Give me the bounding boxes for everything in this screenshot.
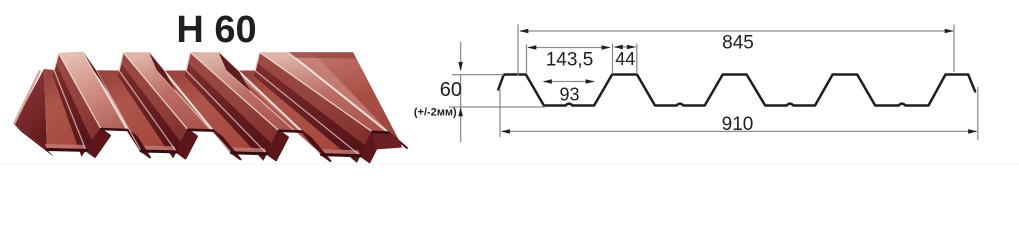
valley 2 top surface [96, 70, 177, 152]
back cut shading: dark wedges on right slants [83, 52, 107, 91]
rib 3 left web front face [267, 131, 288, 161]
valley 1 top surface [44, 69, 86, 150]
rib 1 left web dark core [53, 63, 93, 157]
svg-text:910: 910 [722, 114, 754, 135]
valley 1 front reflection strip [45, 144, 86, 150]
outer web front lower edge foot [14, 124, 54, 157]
rib 2 right web (lit side) [149, 52, 232, 153]
rib 3 crest top [190, 52, 302, 131]
front cut edges [47, 148, 86, 152]
valley 4 top surface [227, 71, 361, 156]
valley 2 front reflection strip [139, 146, 177, 152]
back edge white lines on left slants [54, 53, 59, 70]
profile cross-section outline [498, 75, 975, 106]
rib 2 left web dark core [118, 63, 182, 159]
dimension 845 [520, 30, 953, 32]
rib 4 crest top [259, 52, 388, 132]
rib 3 right web sheen [219, 52, 312, 143]
valley 3 front reflection strip [229, 147, 267, 154]
rib 2 right web sheen [149, 52, 222, 142]
svg-text:143,5: 143,5 [546, 49, 594, 70]
rib 4 left web (shadow side) [255, 52, 373, 156]
end band upper light strip [288, 52, 393, 136]
svg-text:44: 44 [615, 49, 635, 69]
rib 3 left web (shadow side) [186, 52, 279, 154]
rib 2 left web front face [177, 130, 198, 159]
svg-text:93: 93 [559, 85, 579, 105]
extension lines [517, 25, 519, 77]
rib 1 right web (lit side) [83, 52, 141, 151]
end rib outer web front face [389, 133, 408, 148]
left outer web face [14, 69, 47, 150]
rib 2 right web front face [213, 131, 241, 160]
rib 2 crest top [123, 52, 213, 130]
dimension 44 [615, 46, 636, 48]
rib 4 left web dark core [254, 63, 366, 163]
svg-text:60: 60 [440, 79, 462, 101]
svg-text:845: 845 [722, 33, 754, 54]
end tip face [385, 133, 400, 145]
end band: last rib outer web / cut end [288, 52, 400, 142]
end rib front fill (no hole, band behind) [373, 132, 403, 150]
rib 3 right web (lit side) [219, 52, 322, 154]
rib 2 left web (shadow side) [119, 52, 188, 152]
rib 1 left web (shadow side) [54, 53, 101, 151]
svg-text:(+/-2мм): (+/-2мм) [414, 106, 457, 118]
valley 4 front reflection strip [319, 149, 360, 156]
rib 1 right web sheen [83, 52, 134, 141]
rib 1 crest top [59, 52, 128, 130]
faint bottom scan line [0, 163, 1019, 165]
svg-text:H 60: H 60 [176, 9, 256, 51]
valley 3 top surface [157, 71, 267, 154]
rib 3 right web front face [302, 132, 331, 162]
rib 3 left web dark core [185, 63, 272, 161]
rib 1 right web front face [128, 130, 151, 158]
dimension 93 [544, 81, 595, 83]
dimension 143,5 [528, 47, 610, 49]
rib 4 left web front face [361, 132, 382, 162]
rib 1 left web front face [86, 129, 110, 157]
left edge lit strip [14, 71, 40, 125]
highlight lines [83, 52, 128, 130]
dimension 910 [502, 130, 977, 132]
dimension 60 vertical [460, 42, 462, 71]
